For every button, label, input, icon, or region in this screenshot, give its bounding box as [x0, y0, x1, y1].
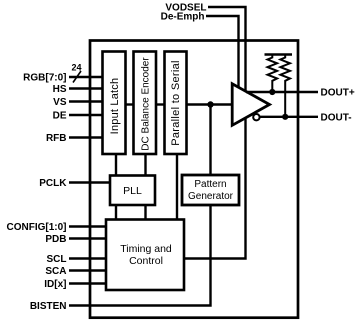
wire junction down to Pattern Generator top [209, 105, 211, 177]
wire RGB bus into Input Latch [69, 76, 103, 78]
svg-text:ID[x]: ID[x] [44, 279, 66, 290]
block Pattern Generator [182, 175, 239, 205]
wire DE into Input Latch [69, 114, 103, 116]
wire DOUT+ output line [246, 91, 318, 93]
svg-text:VS: VS [53, 97, 67, 108]
block Parallel to Serial [165, 52, 187, 155]
block Timing and Control [106, 220, 184, 291]
wire HS into Input Latch [69, 87, 103, 89]
svg-text:HS: HS [53, 84, 67, 95]
svg-text:24: 24 [71, 63, 81, 73]
wire De-Emph to driver [206, 16, 239, 95]
wire ID[x] into Timing and Control [69, 282, 107, 284]
svg-text:DOUT+: DOUT+ [321, 88, 355, 99]
wire VODSEL to driver (vertical passes behind driver down to Timing and Control line) [184, 7, 246, 259]
svg-text:SCL: SCL [47, 254, 67, 265]
wire PDB into Timing and Control [69, 237, 107, 239]
svg-text:SCA: SCA [45, 266, 66, 277]
svg-text:BISTEN: BISTEN [30, 301, 67, 312]
wire BISTEN to Pattern Generator [69, 205, 211, 306]
svg-text:De-Emph: De-Emph [161, 12, 205, 23]
svg-text:Pattern: Pattern [194, 179, 226, 190]
svg-text:RGB[7:0]: RGB[7:0] [23, 73, 66, 84]
svg-text:Parallel to Serial: Parallel to Serial [170, 60, 182, 146]
svg-text:CONFIG[1:0]: CONFIG[1:0] [7, 222, 67, 233]
resistor top rail [265, 53, 293, 55]
svg-text:PDB: PDB [45, 234, 66, 245]
svg-text:RFB: RFB [46, 133, 67, 144]
wire Parallel to Serial down to Timing and Control [176, 153, 178, 221]
wire RFB into Input Latch [69, 136, 103, 138]
node junction left resistor on DOUT+ [269, 89, 275, 95]
wire Input Latch down to Timing and Control (passes behind PLL) [115, 153, 117, 221]
node junction right resistor on DOUT- [282, 114, 288, 120]
wire PCLK into PLL [69, 181, 111, 183]
wire DC Balance Encoder to Parallel to Serial [156, 103, 166, 105]
svg-text:PLL: PLL [123, 185, 142, 197]
wire SCL into Timing and Control [69, 257, 107, 259]
svg-text:Timing and: Timing and [120, 243, 172, 255]
block DC Balance Encoder [134, 52, 157, 155]
inversion bubble on DOUT- [253, 114, 259, 120]
wire VS into Input Latch [69, 100, 103, 102]
outer chip boundary box [90, 41, 298, 318]
svg-text:Input Latch: Input Latch [109, 78, 121, 135]
wire Parallel to Serial to driver input [186, 103, 234, 105]
block PLL [110, 176, 155, 206]
svg-text:DE: DE [53, 111, 67, 122]
bus slash mark [73, 71, 81, 83]
wire DOUT- output line [259, 116, 318, 118]
op-amp output driver triangle [232, 84, 269, 126]
wire CONFIG into Timing and Control [69, 225, 107, 227]
block Input Latch [103, 52, 126, 155]
svg-text:DC Balance Encoder: DC Balance Encoder [141, 57, 152, 151]
node junction serial line to Pattern Generator [207, 101, 213, 107]
svg-text:Generator: Generator [188, 191, 234, 202]
wire SCA into Timing and Control [69, 269, 107, 271]
wire serial data line Input Latch to DC Balance Encoder [125, 103, 134, 105]
svg-text:DOUT-: DOUT- [321, 113, 352, 124]
svg-text:Control: Control [129, 255, 163, 267]
resistor R-left (termination to DOUT+) [268, 55, 278, 93]
resistor R-right (termination to DOUT-) [280, 55, 290, 117]
svg-text:PCLK: PCLK [39, 178, 67, 189]
wire DC Balance Encoder down to Timing and Control (passes behind PLL) [144, 153, 146, 221]
